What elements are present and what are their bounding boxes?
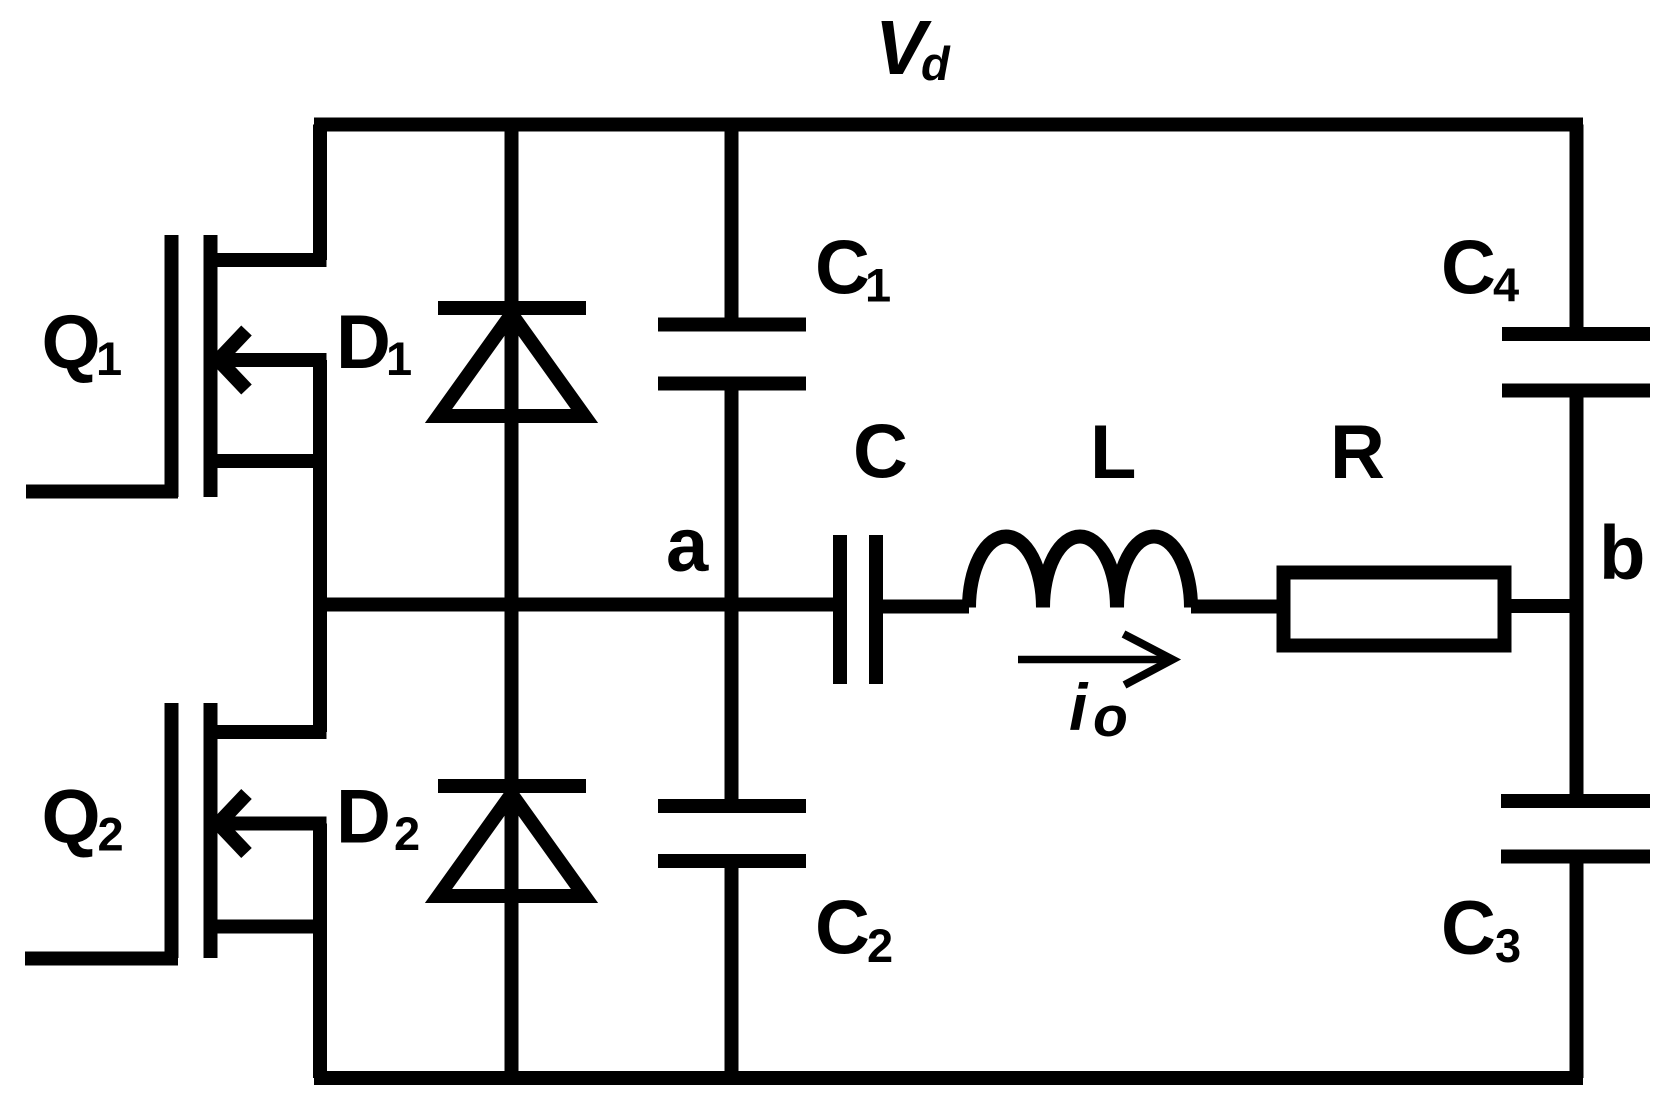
svg-text:3: 3	[1495, 919, 1521, 972]
svg-text:1: 1	[865, 259, 891, 312]
svg-text:d: d	[921, 37, 951, 90]
svg-text:C: C	[1441, 886, 1496, 971]
svg-text:2: 2	[867, 919, 893, 972]
svg-text:D: D	[336, 775, 391, 860]
svg-text:2: 2	[98, 808, 124, 861]
svg-text:C: C	[853, 410, 908, 495]
svg-text:D: D	[336, 300, 391, 385]
svg-text:1: 1	[386, 332, 412, 385]
svg-text:R: R	[1330, 410, 1385, 495]
svg-text:2: 2	[394, 807, 420, 860]
svg-text:4: 4	[1493, 258, 1519, 311]
svg-text:1: 1	[96, 332, 122, 385]
svg-text:L: L	[1090, 410, 1136, 495]
svg-text:Q: Q	[42, 775, 101, 860]
svg-text:C: C	[1441, 226, 1496, 311]
svg-text:C: C	[815, 886, 870, 971]
svg-text:C: C	[815, 226, 870, 311]
svg-text:Q: Q	[42, 300, 101, 385]
svg-text:a: a	[666, 503, 709, 588]
svg-text:b: b	[1599, 511, 1645, 596]
svg-text:i: i	[1069, 670, 1089, 744]
svg-text:o: o	[1093, 685, 1128, 749]
